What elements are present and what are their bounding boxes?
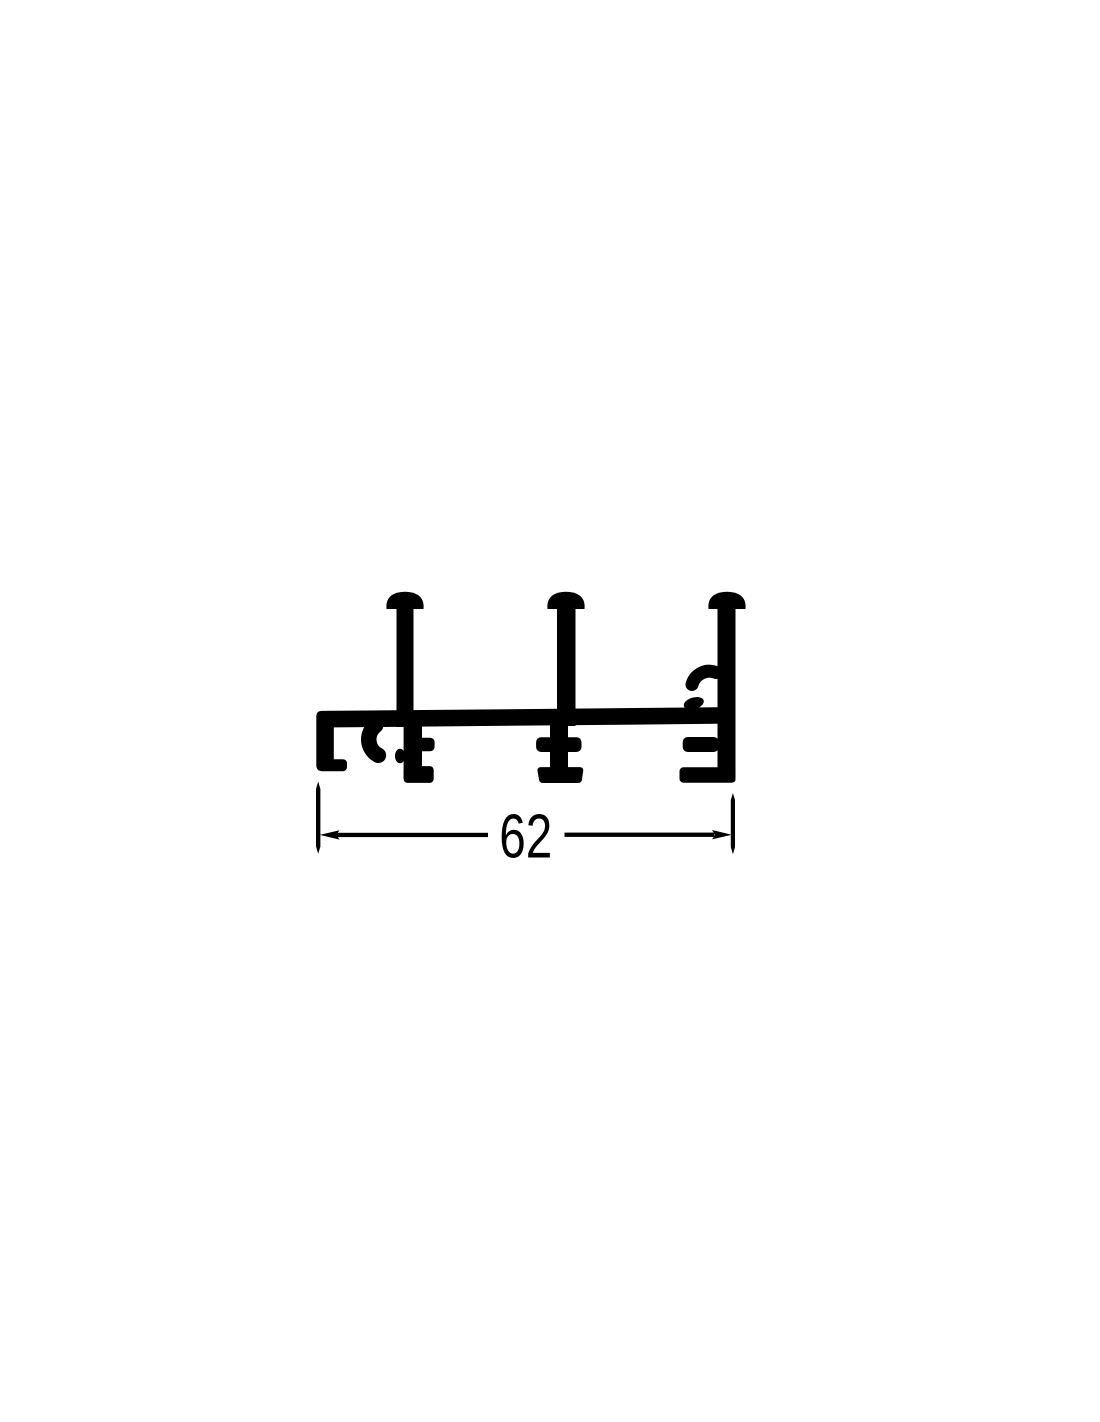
middle post upper stem bbox=[557, 606, 576, 726]
left post foot bbox=[404, 766, 434, 783]
left arrowhead bbox=[320, 830, 340, 839]
right post stem (full height) bbox=[718, 606, 736, 783]
dimension line left segment bbox=[335, 833, 488, 837]
middle post foot (trapezoid) bbox=[537, 767, 583, 783]
right post foot bbox=[680, 767, 736, 782]
screw boss left arm (open C under bar, left bay) bbox=[369, 726, 379, 756]
dimension line right segment bbox=[565, 833, 715, 837]
left post upper stem bbox=[397, 606, 414, 727]
left post dome cap bbox=[386, 592, 423, 609]
left post lower block bbox=[404, 722, 422, 778]
middle post cross tab bbox=[536, 737, 581, 752]
right extension line bbox=[731, 793, 735, 854]
svg-text:62: 62 bbox=[499, 802, 552, 871]
left extension line bbox=[316, 782, 320, 854]
right arrowhead bbox=[712, 830, 732, 839]
middle post dome cap bbox=[547, 592, 584, 609]
screw boss right arm (open C above bar, right post) bbox=[692, 671, 716, 684]
right post left tab bbox=[683, 737, 719, 752]
left post right tab bbox=[414, 738, 435, 752]
screw boss left right-lip blob bbox=[395, 749, 405, 764]
right post dome cap bbox=[708, 592, 745, 609]
screw boss right lower lip bbox=[682, 695, 705, 712]
profile base bar with left wall and left foot (C-channel) bbox=[316, 707, 717, 771]
middle post lower stem bbox=[550, 720, 568, 770]
